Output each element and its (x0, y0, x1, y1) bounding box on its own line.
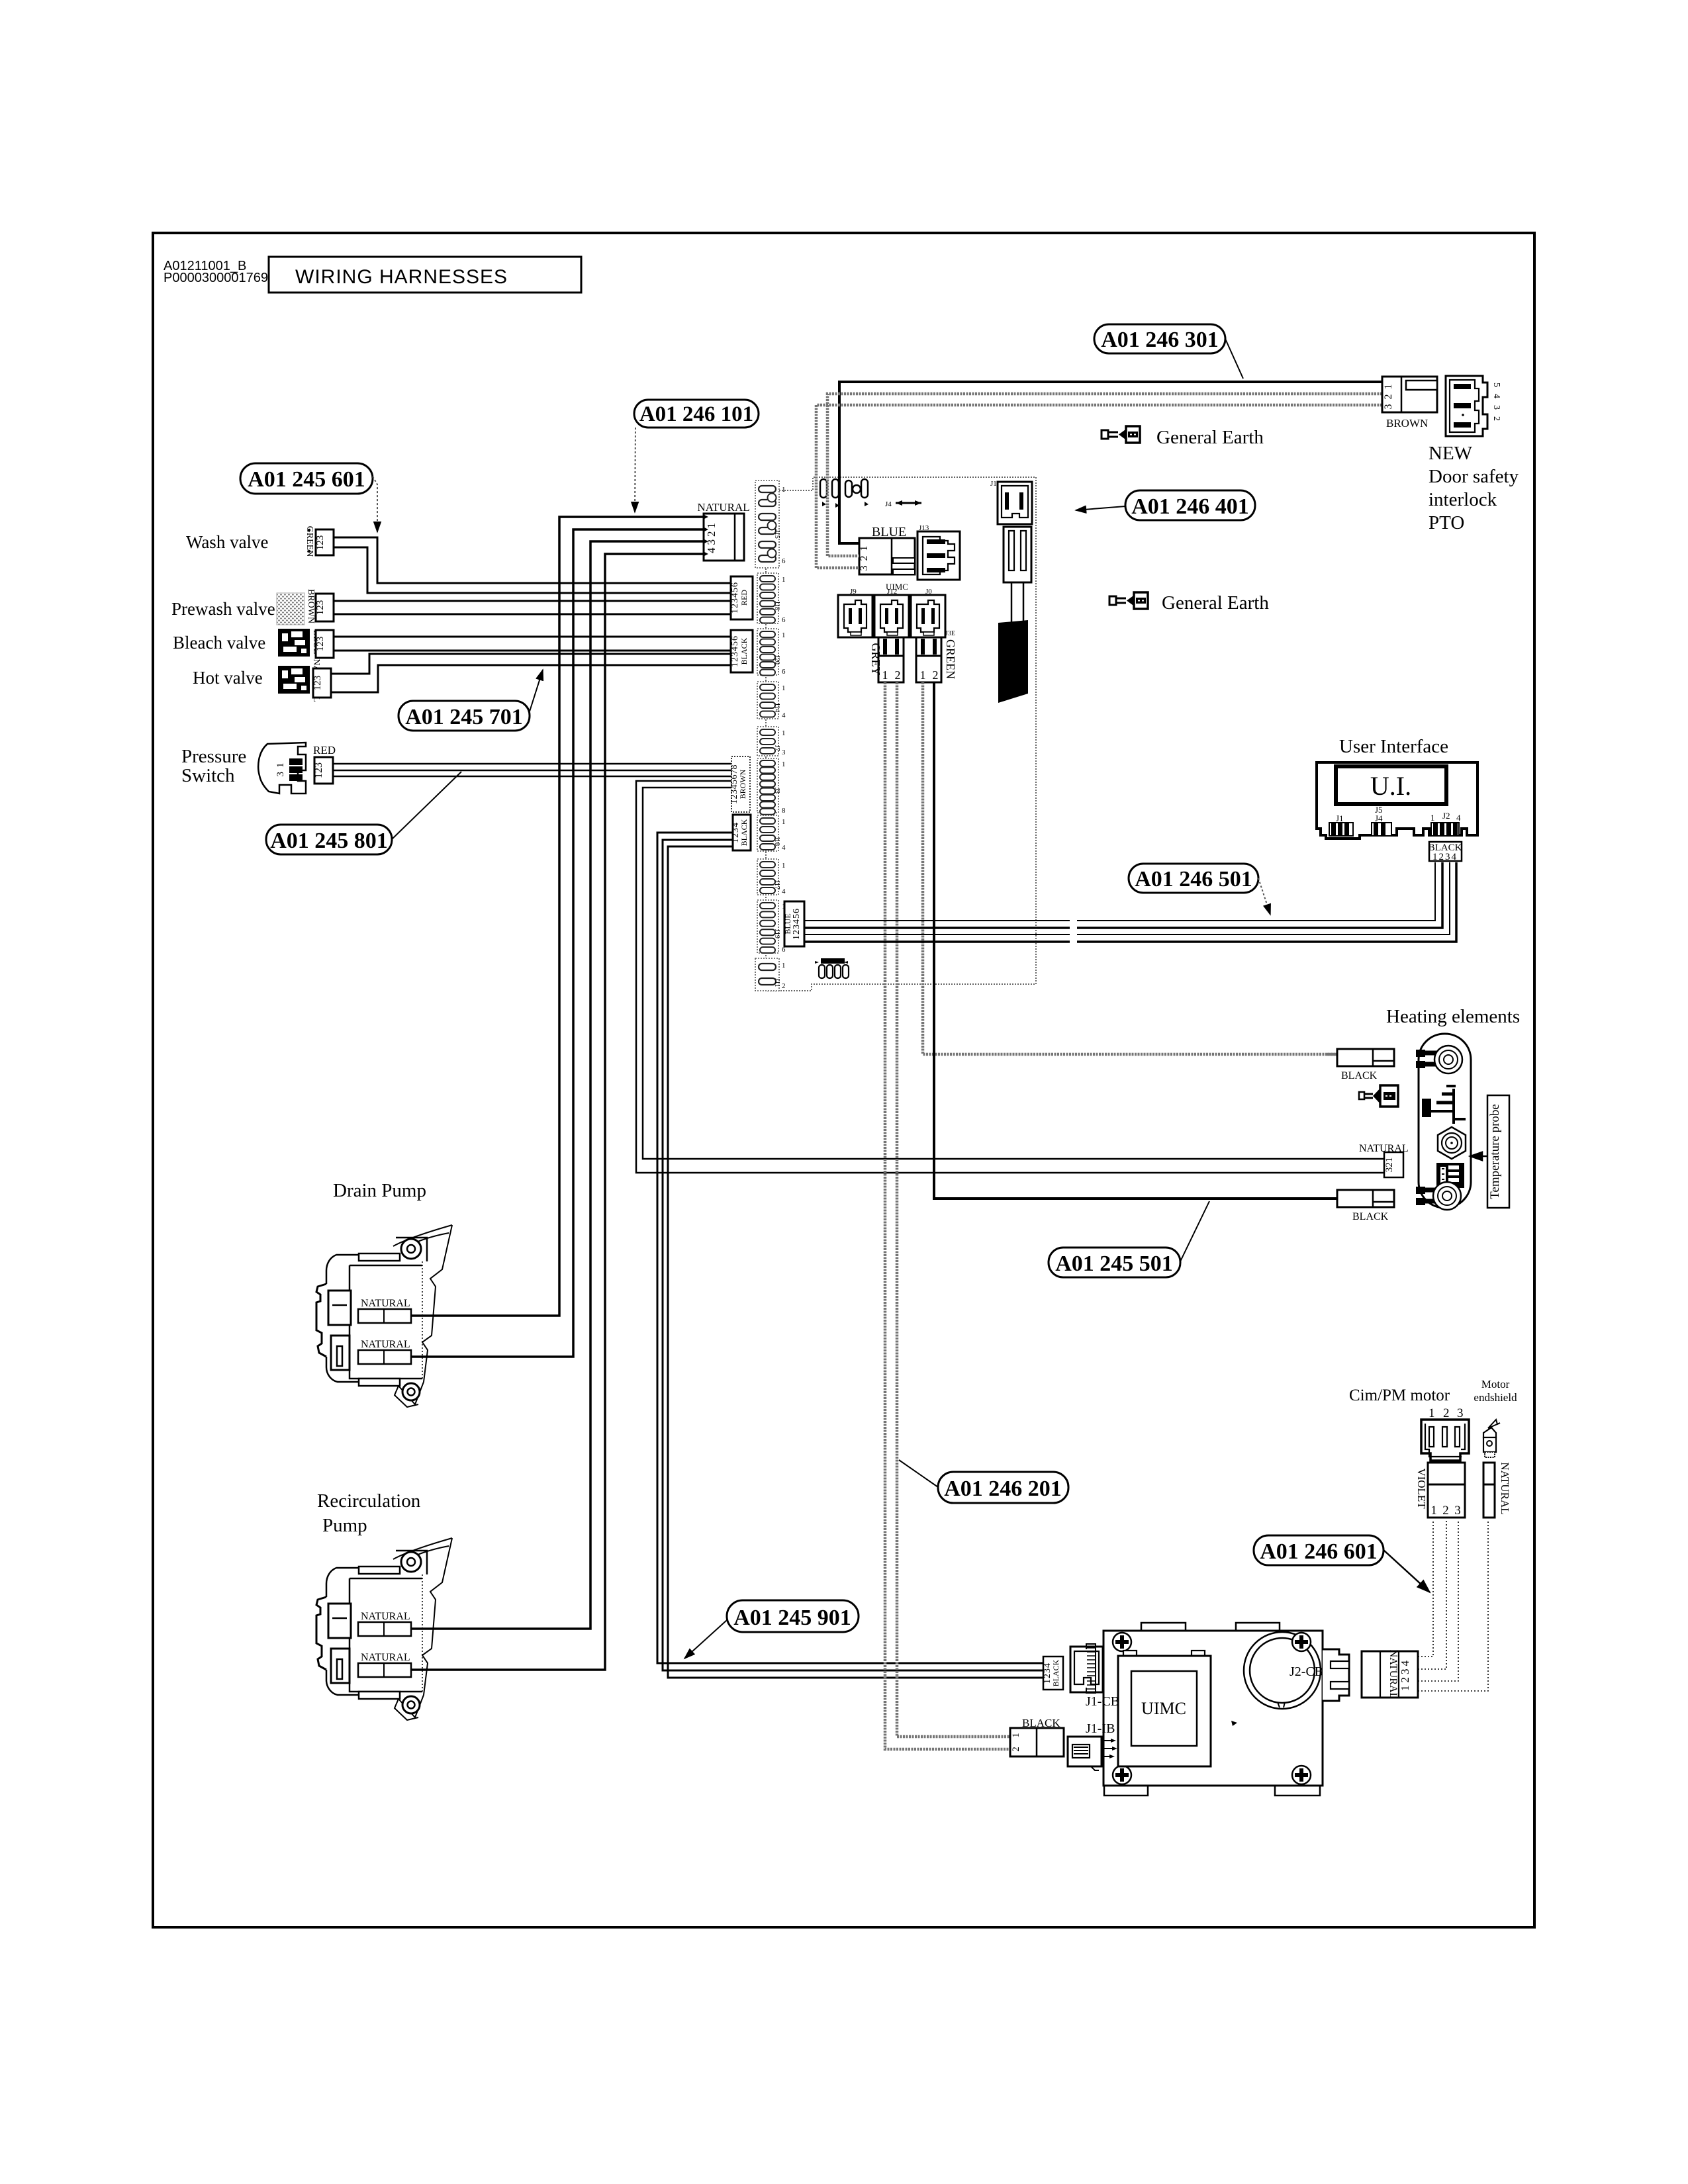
connector 123 BROWN (1382, 377, 1437, 430)
board connector NATURAL 1234 (wash/pumps) (697, 501, 749, 561)
board left edge pin group J19 (757, 900, 786, 954)
svg-text:4: 4 (1456, 813, 1461, 823)
leader from A01 246 201 (899, 1460, 938, 1487)
board left edge pin group J15 (755, 480, 786, 568)
svg-text:1: 1 (782, 862, 786, 870)
label oval A01 245 801 (266, 825, 392, 854)
wire 4321 black w2 (663, 840, 1043, 1670)
wire 4321 black w1 (657, 833, 1043, 1663)
svg-text:2: 2 (1443, 1406, 1450, 1420)
temperature probe box (1487, 1095, 1509, 1208)
svg-text:123456: 123456 (730, 582, 740, 614)
label oval A01 245 601 (240, 463, 373, 494)
general earth 2 icon (1109, 592, 1148, 609)
svg-text:VIOLET: VIOLET (1415, 1468, 1428, 1509)
svg-text:2: 2 (895, 668, 901, 682)
GREEN connector 1 2 (916, 637, 957, 682)
svg-text:2: 2 (933, 668, 939, 682)
svg-text:J2: J2 (1442, 811, 1450, 821)
wire BROWN pin to heating natural (outer) (636, 781, 1384, 1173)
svg-text:1: 1 (782, 818, 786, 826)
board left edge pin group J11 (755, 958, 786, 991)
leader from A01 245 601 (373, 477, 377, 532)
svg-text:BROWN: BROWN (306, 589, 316, 623)
violet connector box (1428, 1463, 1465, 1518)
svg-text:NATURAL: NATURAL (1499, 1462, 1511, 1514)
spade connector BLACK bottom (1337, 1190, 1394, 1222)
svg-text:5432: 5432 (1491, 383, 1501, 428)
svg-text:BLACK: BLACK (739, 637, 749, 664)
svg-text:1: 1 (782, 576, 786, 584)
svg-text:J15: J15 (773, 529, 780, 539)
svg-text:BLUE: BLUE (783, 913, 792, 934)
board connector J0 (911, 595, 945, 637)
svg-text:J19: J19 (773, 929, 780, 938)
motor endshield icon (1483, 1420, 1500, 1457)
label oval A01 246 101 (634, 400, 759, 428)
UIMC screw top-right (1292, 1633, 1311, 1651)
small mark inside box (1231, 1721, 1237, 1726)
leader from A01 246 301 (1225, 339, 1243, 379)
svg-text:1: 1 (782, 631, 786, 639)
svg-text:2: 2 (1011, 1747, 1021, 1752)
board left edge pin group J14 (757, 682, 786, 719)
svg-text:1: 1 (782, 760, 786, 768)
svg-text:A01 246 401: A01 246 401 (1131, 494, 1249, 519)
wire recirculation pump pin2 bus (411, 554, 704, 1670)
wire recirculation pump pin1 bus (411, 541, 704, 1629)
wire blue w1 (804, 862, 1435, 921)
label oval A01 245 901 (727, 1600, 859, 1632)
leader from A01 246 601 (1383, 1550, 1430, 1592)
prewash valve connector 321 (315, 594, 334, 621)
svg-text:123: 123 (315, 600, 326, 615)
wire hot pin1 (331, 654, 731, 674)
svg-text:321: 321 (859, 541, 870, 571)
title box WIRING HARNESSES (269, 257, 581, 293)
svg-text:A01 245 901: A01 245 901 (733, 1606, 851, 1630)
svg-text:BROWN: BROWN (1386, 417, 1428, 430)
svg-text:Temperature probe: Temperature probe (1488, 1104, 1502, 1199)
wire drain pump pin2 bus (411, 529, 704, 1357)
board connector J9 (838, 595, 872, 637)
svg-text:Hot valve: Hot valve (193, 668, 263, 688)
svg-text:6: 6 (782, 557, 786, 565)
svg-text:GREEN: GREEN (305, 526, 314, 557)
svg-text:1: 1 (782, 684, 786, 692)
wire blue w2 (804, 862, 1442, 928)
svg-text:Heating elements: Heating elements (1386, 1006, 1520, 1027)
svg-text:3: 3 (1457, 1406, 1464, 1420)
hot valve connector 321 (312, 668, 331, 698)
svg-text:1: 1 (1430, 1504, 1437, 1518)
NATURAL 1234 connector (motor cable) (1362, 1650, 1418, 1700)
svg-text:J4: J4 (885, 500, 892, 508)
page frame (153, 233, 1534, 1927)
svg-text:General Earth: General Earth (1156, 427, 1264, 448)
heater earth symbol (1422, 1086, 1466, 1124)
pressure switch body (258, 743, 306, 794)
heater bottom terminal (1416, 1182, 1461, 1210)
board connector J1 (990, 480, 1032, 524)
svg-text:GREEN: GREEN (944, 639, 957, 679)
pressure switch connector 321 (313, 757, 333, 784)
board connector BLUE 123456 (783, 901, 804, 946)
wire grey to door connector pin2 (827, 394, 1382, 556)
board connector J13 (917, 524, 960, 580)
board left edge pin group J17 (757, 859, 786, 895)
wire grey pin1 to UIMC J1-IB (897, 682, 1010, 1737)
svg-text:Switch: Switch (181, 765, 235, 786)
UI connector J5/J4 (1372, 805, 1391, 836)
svg-text:4321: 4321 (705, 520, 718, 553)
svg-text:Recirculation: Recirculation (317, 1490, 421, 1512)
door safety interlock connector (1446, 376, 1501, 436)
svg-text:J1-CB: J1-CB (1086, 1694, 1119, 1709)
J1-IB connector (1068, 1737, 1117, 1770)
svg-text:Pump: Pump (322, 1515, 367, 1536)
wire grey pin2 to UIMC J1-IB (885, 682, 1010, 1749)
svg-text:2: 2 (1442, 1504, 1449, 1518)
wire bleach pin1 (334, 636, 731, 638)
heater capsule body (1419, 1034, 1471, 1208)
svg-text:4: 4 (782, 844, 786, 852)
svg-text:123456: 123456 (792, 908, 802, 940)
board left edge pin group J20 (757, 629, 786, 676)
board connector BLUE 123 (859, 525, 915, 574)
svg-text:J3E: J3E (945, 630, 955, 637)
board bottom small connector (815, 958, 849, 978)
board left edge pin group J18 (757, 573, 786, 624)
wire prewash pin1 (334, 600, 731, 602)
wire blue w4 (804, 862, 1456, 942)
board connector J12 (874, 595, 909, 637)
label oval A01 246 301 (1094, 324, 1225, 353)
svg-text:1: 1 (920, 668, 926, 682)
wire pressure pin3 (333, 776, 731, 778)
heater thermostat connector (1436, 1163, 1464, 1188)
heater top terminal (1416, 1046, 1462, 1073)
svg-text:Cim/PM motor: Cim/PM motor (1349, 1387, 1450, 1404)
wire wash valve pin1 to board NATURAL (334, 537, 731, 583)
board left edge pin group J3 (757, 758, 786, 815)
drain pump (316, 1225, 452, 1407)
wires from connector to black block (1011, 582, 1013, 622)
board connector 654321 RED (730, 576, 753, 619)
heating natural connector 321 (1359, 1143, 1409, 1177)
NEW door safety text (1429, 443, 1519, 533)
temperature probe arrow (1470, 1156, 1487, 1158)
svg-text:1: 1 (782, 962, 786, 970)
svg-text:6: 6 (782, 616, 786, 624)
svg-text:3: 3 (782, 749, 786, 756)
svg-text:Door safety: Door safety (1429, 466, 1519, 487)
dotted wire endshield (1418, 1520, 1488, 1691)
svg-text:J11: J11 (773, 978, 780, 987)
svg-text:J1: J1 (990, 480, 997, 488)
UI board box (1317, 762, 1477, 839)
UIMC inner module (1118, 1651, 1211, 1766)
svg-text:Prewash valve: Prewash valve (171, 599, 275, 619)
svg-text:WIRING HARNESSES: WIRING HARNESSES (295, 266, 508, 288)
svg-text:BLACK: BLACK (1352, 1211, 1389, 1222)
label oval A01 245 701 (399, 701, 530, 731)
board top edge pins (820, 479, 868, 508)
svg-text:A01 246 201: A01 246 201 (944, 1477, 1062, 1501)
wire pressure pin2 (333, 770, 731, 772)
svg-text:A01 246 301: A01 246 301 (1101, 328, 1219, 352)
svg-text:1: 1 (782, 486, 786, 494)
svg-text:Pressure: Pressure (181, 746, 246, 767)
dotted wire violet pin3 (1418, 1520, 1458, 1681)
leader from A01 245 801 (392, 772, 461, 839)
svg-text:J2-CB: J2-CB (1289, 1664, 1323, 1679)
svg-text:GREY: GREY (869, 643, 882, 676)
leader from A01 246 401 (1076, 506, 1125, 510)
GREY connector 1 2 (869, 637, 904, 682)
svg-text:3: 3 (1454, 1504, 1461, 1518)
black block component (998, 620, 1028, 703)
board connector below J1 (1004, 527, 1031, 582)
wire drain pump pin1 bus (411, 517, 704, 1316)
loose spade terminal icon (1359, 1085, 1398, 1107)
wire hot pin2 (331, 665, 731, 692)
bleach valve connector 321 (315, 630, 334, 658)
svg-text:1: 1 (1429, 1406, 1435, 1420)
J1-CB connector (1070, 1644, 1103, 1693)
UI cable connector BLACK 1234 (1429, 842, 1462, 862)
svg-text:A01 245 701: A01 245 701 (405, 705, 523, 729)
wire BROWN pin to heating natural (inner) (643, 788, 1384, 1159)
dotted wire violet pin2 (1418, 1520, 1446, 1669)
svg-text:123: 123 (315, 637, 326, 652)
wire grey to door connector pin3 (816, 405, 1382, 568)
svg-text:BLACK: BLACK (1341, 1070, 1378, 1081)
J2-CB circle (1244, 1632, 1323, 1709)
wire bleach pin2 (334, 650, 731, 652)
svg-text:Drain Pump: Drain Pump (333, 1180, 426, 1201)
svg-text:J20: J20 (773, 655, 780, 664)
svg-text:2: 2 (782, 982, 786, 990)
svg-text:User Interface: User Interface (1339, 736, 1448, 757)
svg-text:123: 123 (315, 535, 326, 551)
svg-text:1: 1 (1430, 813, 1435, 823)
board outline (766, 477, 1036, 991)
svg-text:NATURAL: NATURAL (697, 501, 749, 514)
wire green pin2 to heater bottom (934, 682, 1337, 1199)
wire pressure pin1 (333, 763, 731, 765)
leader from A01 245 501 (1180, 1201, 1209, 1261)
label oval A01 246 201 (938, 1472, 1068, 1503)
board connector 4321 BLACK (731, 815, 751, 850)
wire green pin1 to heater top (923, 682, 1337, 1054)
svg-text:1: 1 (782, 729, 786, 737)
prewash valve body (277, 593, 305, 625)
svg-text:J1: J1 (1336, 813, 1344, 823)
svg-text:NATURAL: NATURAL (1387, 1650, 1399, 1700)
UIMC right connector to J2-CB (1323, 1649, 1349, 1701)
wire prewash pin2 (334, 614, 731, 615)
svg-text:endshield: endshield (1474, 1391, 1517, 1404)
wire break gap (1070, 916, 1077, 946)
svg-text:A01 245 601: A01 245 601 (248, 467, 365, 492)
heater hex nut (1438, 1127, 1466, 1159)
wash valve connector 321 (315, 529, 334, 555)
svg-text:1234: 1234 (1399, 1658, 1411, 1691)
endshield connector box (1483, 1463, 1495, 1518)
svg-text:Bleach valve: Bleach valve (173, 633, 265, 653)
svg-text:RED: RED (313, 744, 336, 756)
wire 4321 black w3 (668, 846, 1043, 1678)
svg-text:BLACK: BLACK (1051, 1659, 1060, 1686)
leader from A01 245 901 (684, 1620, 727, 1659)
svg-text:UIMC: UIMC (1141, 1699, 1186, 1718)
svg-text:A01 246 101: A01 246 101 (639, 402, 753, 426)
svg-text:123: 123 (313, 762, 324, 778)
svg-text:BROWN: BROWN (738, 769, 747, 799)
leader from A01 246 501 (1258, 878, 1270, 915)
general earth 1 icon (1102, 426, 1140, 443)
svg-text:RED: RED (739, 590, 749, 606)
board connector 87654321 BROWN (729, 756, 750, 812)
svg-text:1: 1 (1011, 1733, 1021, 1738)
svg-text:1234: 1234 (1432, 852, 1458, 862)
label oval A01 246 501 (1129, 864, 1258, 893)
svg-text:A01 245 801: A01 245 801 (270, 829, 388, 853)
UI connector J1 (1329, 813, 1353, 836)
svg-text:J4: J4 (1375, 813, 1383, 823)
bleach valve body (278, 629, 310, 657)
board connector 654321 BLACK (730, 630, 753, 672)
svg-text:J16: J16 (773, 837, 780, 846)
svg-text:BLACK: BLACK (739, 819, 749, 846)
hot valve body (278, 666, 310, 694)
board left edge pin group J16 (757, 815, 786, 852)
dotted wire violet pin1 (1418, 1520, 1433, 1657)
spade connector BLACK top (1327, 1049, 1394, 1081)
svg-text:interlock: interlock (1429, 489, 1497, 510)
svg-text:NEW: NEW (1429, 443, 1473, 464)
wire blue w3 (804, 862, 1450, 934)
BLACK 1 2 connector (grey pair cable) (1010, 1717, 1064, 1756)
svg-text:A01 246 501: A01 246 501 (1135, 867, 1252, 891)
svg-text:3 1: 3 1 (275, 762, 286, 776)
svg-text:A01 246 601: A01 246 601 (1260, 1539, 1378, 1564)
motor connector housing (1421, 1420, 1469, 1461)
svg-text:6: 6 (782, 668, 786, 676)
svg-text:321: 321 (1384, 1158, 1395, 1173)
svg-text:J18: J18 (773, 601, 780, 610)
svg-text:J7: J7 (773, 745, 780, 751)
svg-text:J14: J14 (773, 703, 780, 712)
svg-text:Motor: Motor (1481, 1378, 1510, 1390)
wire wash valve pin2 to board NATURAL (334, 547, 731, 593)
svg-text:U.I.: U.I. (1370, 771, 1411, 801)
svg-text:4: 4 (782, 711, 786, 719)
svg-text:J3: J3 (773, 788, 780, 794)
svg-text:J1-IB: J1-IB (1086, 1721, 1115, 1736)
label oval A01 246 601 (1254, 1535, 1383, 1565)
board jumper J4 (885, 500, 921, 508)
svg-text:A01 245 501: A01 245 501 (1055, 1251, 1173, 1276)
board left edge pin group J7 (757, 727, 786, 756)
svg-text:J17: J17 (773, 880, 780, 889)
leader from A01 245 701 (530, 670, 543, 711)
UIMC main box (1103, 1623, 1323, 1796)
svg-text:4: 4 (782, 887, 786, 895)
wash valve dots (308, 529, 318, 553)
leader from A01 246 101 (635, 428, 635, 512)
svg-text:PTO: PTO (1429, 512, 1464, 533)
4321 BLACK connector (UIMC cable) (1043, 1657, 1063, 1690)
svg-text:123456: 123456 (730, 635, 740, 667)
recirculation pump (316, 1538, 452, 1720)
svg-text:8: 8 (782, 807, 786, 815)
label oval A01 246 401 (1125, 490, 1255, 520)
svg-text:General Earth: General Earth (1162, 592, 1269, 614)
svg-text:P0000300001769: P0000300001769 (164, 271, 268, 285)
label oval A01 245 501 (1049, 1248, 1180, 1277)
svg-text:Wash valve: Wash valve (186, 532, 269, 552)
svg-text:123: 123 (312, 676, 323, 691)
UI connector J2 (1430, 811, 1461, 836)
svg-text:321: 321 (1383, 380, 1394, 410)
wire solid to door connector pin1 (839, 382, 1382, 543)
